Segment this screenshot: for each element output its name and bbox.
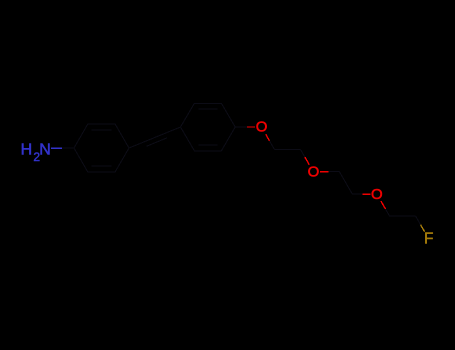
svg-text:O: O: [256, 119, 268, 136]
bond CH2-CH2 (third glycol): [390, 215, 416, 217]
ring 2 inner double bond top: [198, 108, 217, 110]
benzene ring 2 outline: [181, 103, 236, 151]
bond CH2-O2 grey half: [301, 150, 305, 158]
bond CH2-O2 red half: [305, 157, 309, 165]
vinylene bridge main line: [129, 127, 181, 148]
svg-text:F: F: [424, 230, 433, 247]
bond CH2-CH2 (second glycol): [339, 172, 352, 195]
bond O3-CH2 grey half: [386, 209, 390, 216]
bond CH2-O3 red half: [362, 193, 370, 195]
bond O3-CH2 red half: [381, 201, 386, 209]
ring 1 inner double bond bottom: [92, 165, 112, 167]
bond O2-CH2 red half: [320, 171, 328, 173]
svg-text:H: H: [21, 142, 33, 159]
svg-text:O: O: [371, 186, 383, 203]
ring 1 inner double bond top: [92, 129, 112, 131]
amine label H2N: [21, 142, 51, 164]
bond ring2-O1 red half: [247, 126, 255, 128]
bond ring2-O1 grey half: [235, 126, 247, 128]
bond CH2-O3 grey half: [352, 193, 362, 195]
vinylene double bond parallel: [146, 138, 167, 146]
bond N-C1(ring1) blue half: [51, 147, 62, 149]
bond CH2-F grey half: [416, 216, 421, 225]
svg-text:O: O: [308, 163, 320, 180]
svg-text:N: N: [39, 142, 51, 159]
ring 2 inner double bond bottom: [198, 144, 217, 146]
benzene ring 1 outline: [74, 124, 129, 172]
bond O1-CH2 grey half: [270, 141, 275, 150]
bond CH2-CH2 (first glycol): [275, 149, 301, 151]
bond O1-CH2 red half: [266, 134, 270, 141]
bond O2-CH2 grey half: [328, 171, 339, 173]
bond CH2-F gold half: [421, 225, 425, 232]
bond N-C1(ring1) grey half: [62, 147, 74, 149]
